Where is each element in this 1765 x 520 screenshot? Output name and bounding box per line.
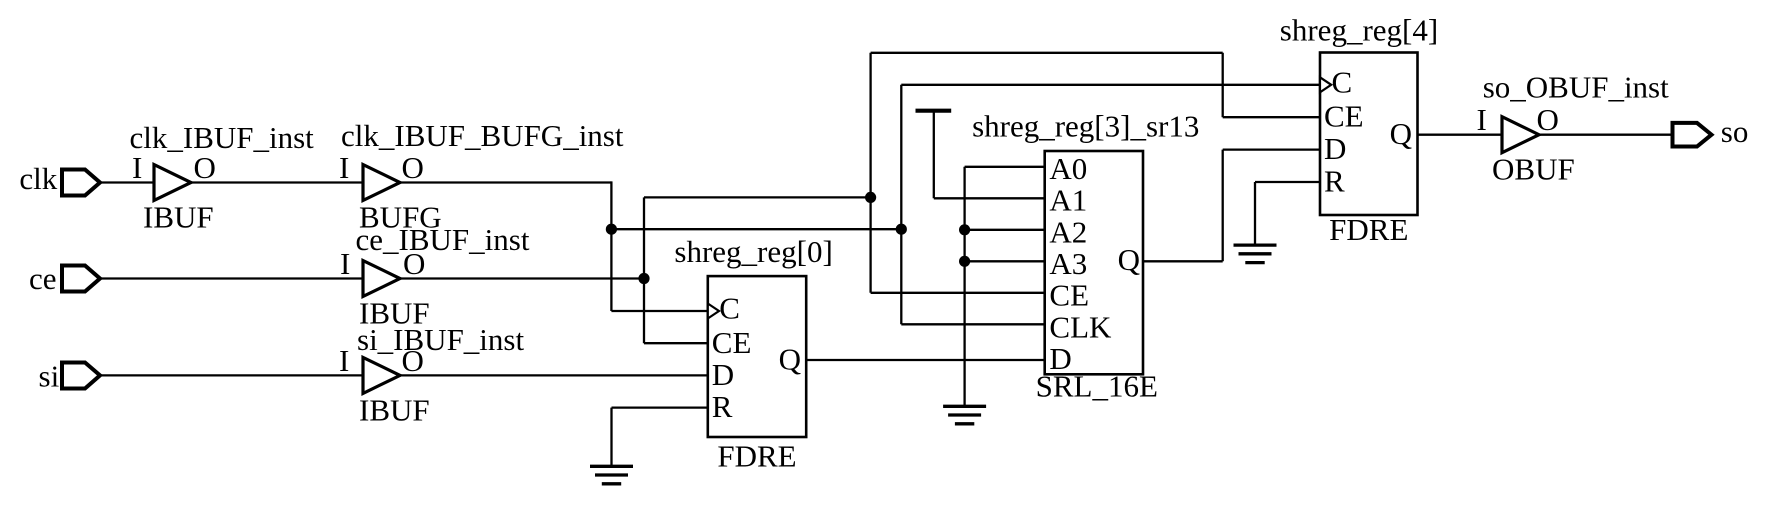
- svg-text:SRL_16E: SRL_16E: [1036, 369, 1158, 404]
- input port clk: [19, 161, 100, 196]
- junction ce at x644: [638, 273, 649, 284]
- svg-text:I: I: [340, 246, 350, 281]
- buffer si_IBUF_inst IBUF: [339, 322, 524, 427]
- svg-text:OBUF: OBUF: [1492, 152, 1575, 187]
- wire FDRE0 R to ground: [612, 406, 708, 408]
- svg-text:R: R: [1324, 164, 1345, 199]
- wire clock net: BUFG out to corner: [400, 181, 611, 183]
- svg-text:ce: ce: [29, 261, 57, 296]
- wire into SRL A2: [965, 229, 1045, 231]
- wire ce port to IBUF: [100, 277, 363, 279]
- clock pin marker FDRE4 C: [1320, 77, 1331, 92]
- output port so: [1673, 114, 1749, 149]
- flip-flop shreg_reg[4] FDRE: [1280, 12, 1438, 247]
- svg-text:shreg_reg[3]_sr13: shreg_reg[3]_sr13: [972, 108, 1199, 143]
- svg-text:C: C: [1332, 64, 1353, 99]
- svg-text:CE: CE: [712, 325, 752, 360]
- power symbol (logic 1) for A1: [916, 111, 952, 199]
- ground under SRL address pins: [943, 406, 986, 424]
- wire clock horizontal branch: [611, 228, 901, 230]
- svg-text:si: si: [39, 359, 60, 394]
- buffer so_OBUF_inst OBUF: [1477, 70, 1670, 187]
- wire ce into FDRE4 CE: [1223, 116, 1320, 118]
- buffer ce_IBUF_inst IBUF: [340, 222, 530, 331]
- svg-text:O: O: [402, 343, 424, 378]
- wire ce vertical at x870: [869, 53, 871, 293]
- svg-text:CE: CE: [1049, 278, 1089, 313]
- svg-text:Q: Q: [1118, 242, 1140, 277]
- svg-text:FDRE: FDRE: [717, 439, 796, 474]
- wire clock vertical at x901: [900, 85, 902, 324]
- svg-text:A1: A1: [1049, 183, 1087, 218]
- svg-text:I: I: [132, 150, 142, 185]
- wire clock net vertical: [610, 181, 612, 311]
- svg-text:I: I: [339, 343, 349, 378]
- svg-text:IBUF: IBUF: [143, 200, 214, 235]
- clock pin marker FDRE0 C: [708, 304, 719, 319]
- buffer clk_IBUF_inst IBUF: [130, 120, 315, 235]
- wire OBUF to so port: [1539, 134, 1673, 136]
- svg-text:I: I: [339, 150, 349, 185]
- wire ce into SRL CE: [871, 292, 1045, 294]
- svg-text:D: D: [1324, 131, 1346, 166]
- wire clock to FDRE4 C: [901, 84, 1320, 86]
- svg-text:A3: A3: [1049, 246, 1087, 281]
- wire ce down to FDRE4 CE level: [1222, 53, 1224, 117]
- svg-text:so_OBUF_inst: so_OBUF_inst: [1483, 70, 1669, 105]
- wire clock to SRL CLK: [901, 323, 1044, 325]
- svg-text:Q: Q: [779, 342, 801, 377]
- junction A2: [959, 224, 970, 235]
- wire FDRE0 Q to SRL D: [806, 359, 1044, 361]
- shift register shreg_reg[3]_sr13 SRL_16E: [972, 108, 1199, 403]
- svg-text:shreg_reg[0]: shreg_reg[0]: [674, 234, 832, 269]
- buffer clk_IBUF_BUFG_inst BUFG: [339, 118, 624, 235]
- svg-text:O: O: [402, 150, 424, 185]
- wire ce horizontal to x870: [644, 196, 871, 198]
- wire ground net vertical: [963, 167, 965, 406]
- svg-text:ce_IBUF_inst: ce_IBUF_inst: [356, 222, 530, 257]
- wire si IBUF out to FDRE0 D: [400, 374, 708, 376]
- junction clock at x611: [606, 224, 617, 235]
- wire clk port to IBUF: [100, 181, 154, 183]
- svg-text:R: R: [712, 389, 733, 424]
- flip-flop shreg_reg[0] FDRE: [674, 234, 832, 474]
- svg-text:O: O: [403, 246, 425, 281]
- wire ce net: IBUF out: [400, 277, 644, 279]
- svg-text:CE: CE: [1324, 99, 1364, 134]
- svg-text:Q: Q: [1390, 116, 1412, 151]
- svg-text:A0: A0: [1049, 151, 1087, 186]
- svg-text:clk_IBUF_inst: clk_IBUF_inst: [130, 120, 315, 155]
- ground under FDRE4: [1234, 245, 1277, 263]
- wire ce top run to x1222: [871, 52, 1223, 54]
- svg-text:O: O: [194, 150, 216, 185]
- junction ce at x870: [865, 192, 876, 203]
- wire ground net to SRL A0: [965, 166, 1045, 168]
- svg-text:IBUF: IBUF: [359, 392, 430, 427]
- wire ce vertical at x644: [643, 197, 645, 343]
- wire into SRL A3: [965, 260, 1045, 262]
- wire clock into FDRE0 C: [611, 310, 707, 312]
- svg-text:O: O: [1537, 102, 1559, 137]
- svg-text:C: C: [719, 291, 740, 326]
- svg-text:so: so: [1721, 114, 1749, 149]
- wire FDRE4 Q to OBUF: [1418, 134, 1503, 136]
- svg-text:D: D: [712, 357, 734, 392]
- svg-text:FDRE: FDRE: [1329, 212, 1408, 247]
- junction clock at x901: [896, 224, 907, 235]
- svg-text:clk: clk: [19, 161, 57, 196]
- svg-text:I: I: [1477, 102, 1487, 137]
- svg-text:si_IBUF_inst: si_IBUF_inst: [357, 322, 524, 357]
- ground under FDRE0: [590, 466, 633, 484]
- wire power to SRL A1: [934, 197, 1045, 199]
- svg-text:clk_IBUF_BUFG_inst: clk_IBUF_BUFG_inst: [341, 118, 624, 153]
- wire si port to IBUF: [100, 374, 363, 376]
- wire FDRE4 R to ground: [1255, 181, 1320, 183]
- wire clk IBUF out to BUFG: [191, 181, 363, 183]
- junction A3: [959, 256, 970, 267]
- svg-text:shreg_reg[4]: shreg_reg[4]: [1280, 12, 1438, 47]
- input port si: [39, 359, 101, 394]
- wire SRL Q to FDRE4 D: [1143, 260, 1223, 262]
- svg-text:A2: A2: [1049, 214, 1087, 249]
- wire ce into FDRE0 CE: [644, 342, 708, 344]
- svg-text:CLK: CLK: [1049, 309, 1112, 344]
- input port ce: [29, 261, 100, 296]
